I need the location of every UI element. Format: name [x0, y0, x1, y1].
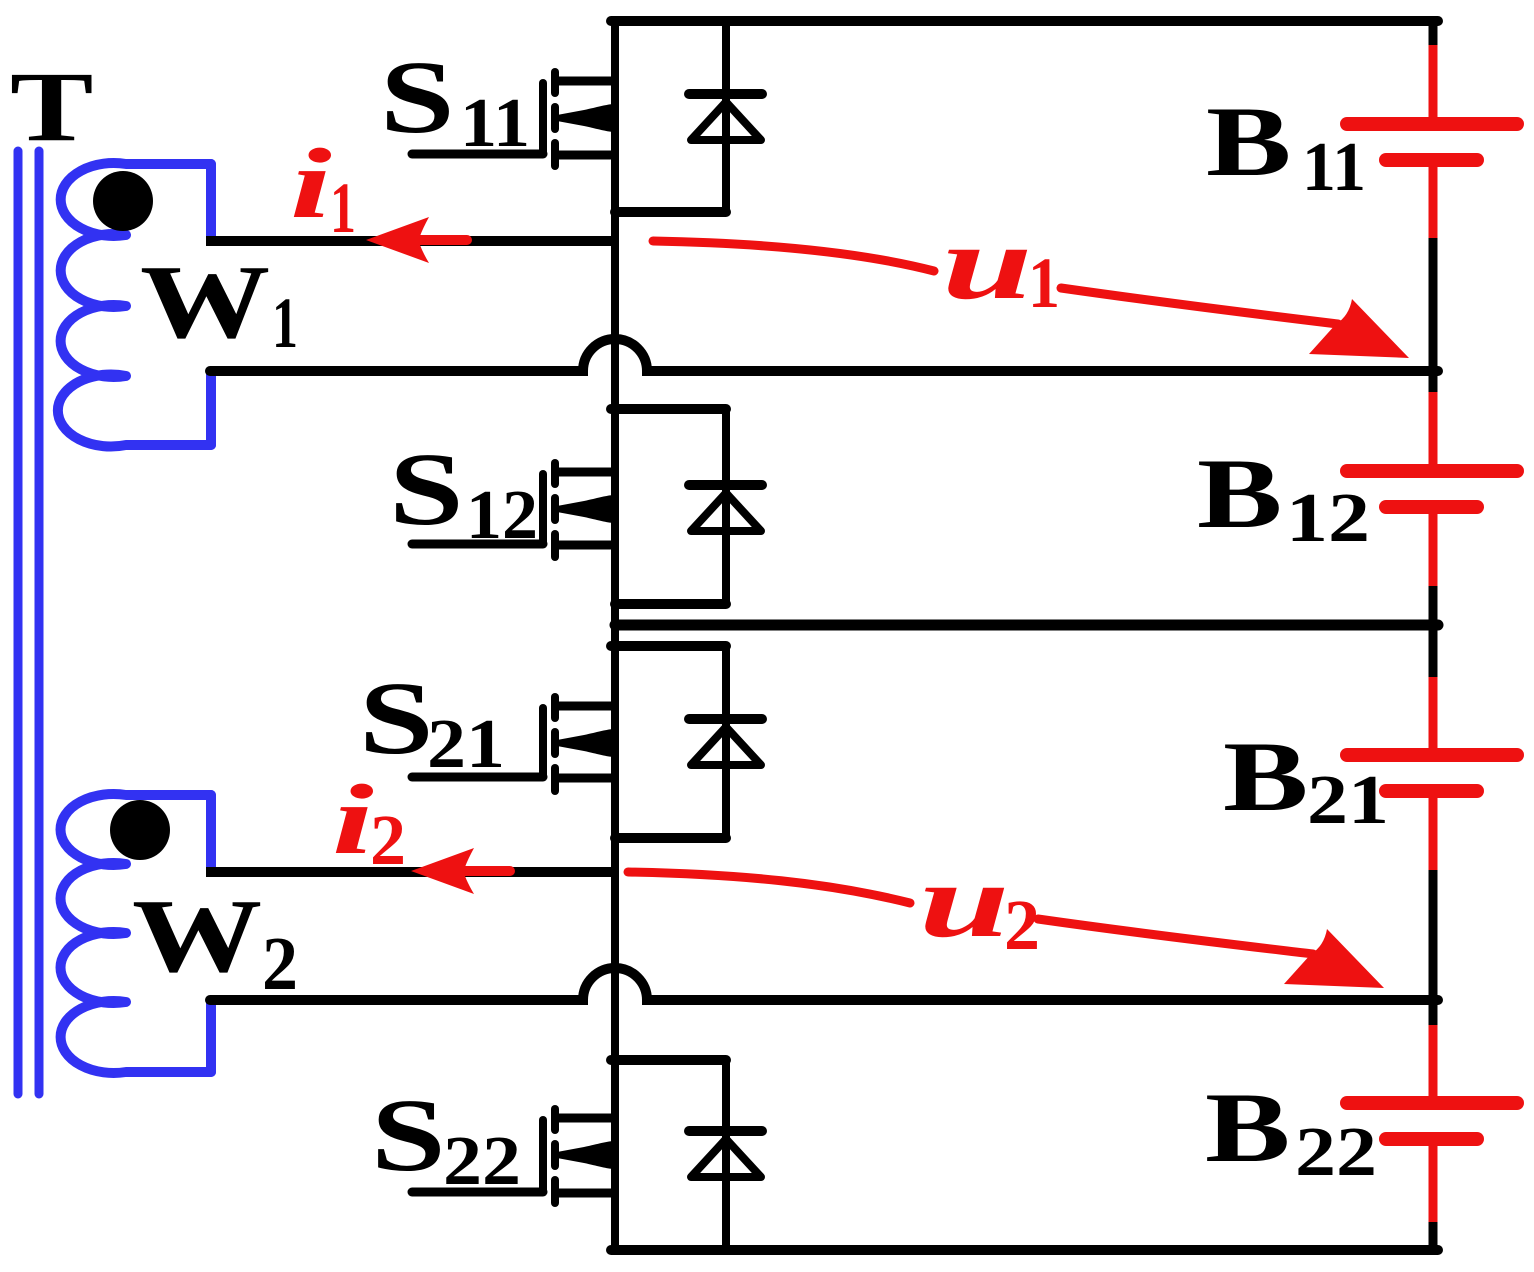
wire: B21 negative lead (red)	[1429, 795, 1438, 870]
svg-text:i: i	[332, 764, 374, 875]
S21 body arrow	[557, 729, 613, 757]
S11 gate bar	[539, 83, 547, 154]
wire: S22 source connection	[556, 1189, 615, 1198]
label u1	[942, 204, 1060, 323]
wire: switch-node vertical bus	[611, 21, 619, 1250]
wire: B21 positive lead (red)	[1429, 677, 1438, 751]
wire: W2 bottom rail with hop over bus	[210, 968, 1438, 1000]
wire: bottom rail (S22 source to B22 -)	[611, 1245, 1438, 1255]
svg-text:B: B	[1205, 1072, 1290, 1183]
winding W2	[61, 794, 211, 1073]
svg-text:W: W	[140, 244, 270, 360]
label B12	[1197, 438, 1370, 557]
wire: S21 box top	[611, 641, 726, 651]
B11 positive plate	[1347, 117, 1517, 131]
label S11	[380, 39, 530, 162]
transistor S12 (MOSFET)	[412, 463, 615, 557]
svg-text:u: u	[942, 204, 1033, 321]
label B11	[1206, 86, 1366, 206]
svg-text:S: S	[371, 1077, 446, 1192]
svg-text:21: 21	[427, 706, 505, 783]
wire: B11 positive lead (red)	[1429, 45, 1438, 120]
battery B11	[1347, 21, 1517, 371]
wire: B22 bottom lead (black)	[1429, 1222, 1438, 1250]
svg-text:S: S	[380, 39, 455, 154]
wire: S11 diode branch vertical	[722, 21, 730, 212]
wire: S12 diode branch vertical	[722, 409, 730, 604]
svg-text:22: 22	[1295, 1114, 1377, 1191]
wire: B22 negative lead (red)	[1429, 1143, 1438, 1222]
svg-text:i: i	[290, 128, 332, 239]
svg-text:B: B	[1206, 86, 1291, 197]
svg-text:1: 1	[330, 168, 356, 248]
wire: S22 box top	[611, 1055, 726, 1065]
wire: S11 drain connection	[556, 77, 615, 86]
wire: B12 top lead (black)	[1429, 371, 1438, 392]
B21 positive plate	[1347, 748, 1517, 762]
wire: B11 negative lead (red)	[1429, 164, 1438, 238]
wire: B21 bottom lead (black)	[1429, 870, 1438, 1000]
B12 positive plate	[1347, 464, 1517, 478]
svg-text:22: 22	[443, 1123, 521, 1200]
wire: S21 drain connection	[556, 702, 615, 711]
wire: B12 bottom lead (black)	[1429, 586, 1438, 625]
svg-text:B: B	[1197, 438, 1282, 549]
svg-text:21: 21	[1307, 762, 1389, 839]
body diode of S22	[689, 1060, 762, 1250]
label B22	[1205, 1072, 1377, 1191]
voltage arrow u1	[653, 241, 1338, 324]
wire: S12 box top	[611, 404, 726, 414]
wire: B11 bottom lead (black)	[1429, 238, 1438, 371]
svg-text:1: 1	[1028, 243, 1060, 323]
S12 diode anode triangle	[691, 493, 761, 531]
wire: B22 top lead (black)	[1429, 1000, 1438, 1025]
S22 diode anode triangle	[691, 1139, 761, 1177]
S11 diode anode triangle	[691, 102, 761, 140]
B22 positive plate	[1347, 1096, 1517, 1110]
wire: B11 top lead (black)	[1429, 21, 1438, 45]
S21 channel bar (3 segments)	[551, 697, 559, 718]
svg-text:2: 2	[262, 922, 298, 1006]
label S12	[389, 431, 538, 554]
S12 body arrow	[557, 495, 613, 523]
S12 gate bar	[539, 474, 547, 544]
battery B12	[1347, 371, 1517, 625]
svg-text:B: B	[1223, 721, 1308, 832]
polarity dot W1	[93, 171, 153, 231]
label u2	[919, 842, 1040, 965]
wire: S11 source connection	[556, 151, 615, 160]
wire: S12 box bottom	[615, 599, 726, 609]
wire: W1 bottom rail with hop over bus	[210, 339, 1438, 371]
B21 negative plate	[1386, 784, 1477, 798]
svg-text:2: 2	[370, 800, 406, 880]
S12 diode cathode bar	[689, 480, 762, 490]
label W2	[132, 878, 298, 1006]
B22 negative plate	[1386, 1132, 1477, 1146]
body diode of S12	[689, 409, 762, 604]
wire: S12 drain connection	[556, 468, 615, 477]
S11 channel bar (3 segments)	[551, 72, 559, 93]
label i1	[290, 128, 356, 248]
S21 diode anode triangle	[691, 727, 761, 765]
S11 diode cathode bar	[689, 89, 762, 99]
wire: S22 gate lead / label underline	[412, 1188, 543, 1197]
svg-text:2: 2	[1004, 885, 1040, 965]
wire: i1 wire (W1 top to switch node)	[206, 236, 615, 246]
svg-text:11: 11	[460, 85, 530, 162]
svg-text:u: u	[919, 842, 1010, 959]
label S21	[359, 660, 505, 783]
wire: B21 top lead (black)	[1429, 625, 1438, 677]
body diode of S11	[689, 21, 762, 212]
wire: S12 gate lead / label underline	[412, 540, 543, 549]
transformer T core	[18, 151, 39, 1094]
B11 negative plate	[1386, 153, 1477, 167]
battery B22	[1347, 1000, 1517, 1250]
polarity dot W2	[110, 800, 170, 860]
transistor S11 (MOSFET)	[412, 72, 615, 166]
label S22	[371, 1077, 521, 1200]
wire: S11 box bottom	[615, 207, 726, 217]
battery B21	[1347, 625, 1517, 1000]
label i2	[332, 764, 406, 880]
current arrow i1	[366, 217, 472, 263]
svg-text:11: 11	[1302, 129, 1366, 206]
transistor S22 (MOSFET)	[412, 1109, 615, 1203]
wire: S11 gate lead / label underline	[412, 150, 543, 159]
wire: B12 positive lead (red)	[1429, 392, 1438, 467]
wire: i2 wire (W2 top to switch node)	[206, 867, 615, 877]
wire: S21 source connection	[556, 774, 615, 783]
wire: S12 source connection	[556, 541, 615, 550]
svg-text:T: T	[10, 52, 93, 162]
wire: S21 gate lead / label underline	[412, 773, 543, 782]
wire: S21 box bottom	[615, 833, 726, 843]
wire: S22 drain connection	[556, 1114, 615, 1123]
winding W1	[58, 163, 211, 447]
wire: top rail (S11 drain to B11 +)	[611, 16, 1438, 26]
body diode of S21	[689, 646, 762, 838]
svg-text:S: S	[359, 660, 434, 775]
transistor S21 (MOSFET)	[412, 697, 615, 791]
svg-text:W: W	[132, 878, 262, 994]
S22 gate bar	[539, 1120, 547, 1192]
wire: S22 diode branch vertical	[722, 1060, 730, 1250]
svg-text:12: 12	[466, 477, 538, 554]
S22 channel bar (3 segments)	[551, 1109, 559, 1130]
wire: B12 negative lead (red)	[1429, 511, 1438, 586]
S11 body arrow	[557, 104, 613, 132]
wire: B22 positive lead (red)	[1429, 1025, 1438, 1099]
wire: mid rail (S12/S21 node to B12/B21 junction)	[615, 620, 1438, 631]
svg-text:1: 1	[272, 283, 298, 363]
B12 negative plate	[1386, 500, 1477, 514]
label W1	[140, 244, 298, 363]
S22 body arrow	[557, 1141, 613, 1169]
label B21	[1223, 721, 1389, 839]
current arrow i2	[411, 848, 515, 894]
S21 gate bar	[539, 708, 547, 777]
wire: S21 diode branch vertical	[722, 646, 730, 838]
voltage arrow u2	[628, 872, 1313, 954]
S22 diode cathode bar	[689, 1126, 762, 1136]
svg-text:S: S	[389, 431, 464, 546]
svg-text:12: 12	[1286, 480, 1370, 557]
S21 diode cathode bar	[689, 714, 762, 724]
S12 channel bar (3 segments)	[551, 463, 559, 484]
